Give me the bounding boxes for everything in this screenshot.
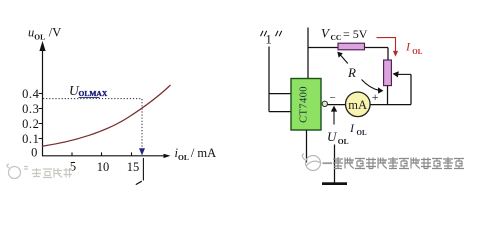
svg-text:V: V bbox=[321, 26, 331, 41]
wire input stub A bbox=[269, 93, 291, 95]
wire input stub B bbox=[269, 111, 291, 113]
svg-text:uOL /V: uOL /V bbox=[28, 25, 61, 41]
svg-text:5: 5 bbox=[70, 159, 76, 173]
wire pot bottom bbox=[387, 86, 389, 105]
chart y-axis arrowhead bbox=[39, 41, 45, 51]
svg-text:= 5V: = 5V bbox=[343, 27, 368, 41]
svg-text:10: 10 bbox=[97, 160, 110, 174]
chart x-axis bbox=[42, 155, 166, 157]
output-low characteristic curve bbox=[42, 85, 171, 146]
svg-text:0.1: 0.1 bbox=[22, 132, 39, 146]
wire meter to loop bbox=[370, 104, 411, 106]
dashed guide vertical at IOLmax bbox=[141, 99, 143, 148]
current annotation arrow IOL (red) bbox=[377, 38, 396, 52]
chart x tick marks bbox=[72, 152, 132, 155]
output inversion bubble bbox=[322, 101, 327, 106]
svg-text:15: 15 bbox=[127, 160, 140, 174]
svg-text:I: I bbox=[349, 121, 355, 135]
potentiometer RP body bbox=[384, 60, 392, 86]
marker line below x-axis bbox=[142, 158, 144, 181]
chart y tick labels bbox=[22, 87, 40, 160]
guide arrowhead down at axis bbox=[139, 148, 145, 155]
wire input vertical bbox=[268, 47, 270, 112]
partial italic I cut at bottom bbox=[136, 181, 142, 184]
milliammeter mA bbox=[346, 92, 371, 117]
svg-text:I: I bbox=[405, 40, 411, 54]
resistor R (series) bbox=[338, 43, 365, 50]
svg-text:OLMAX: OLMAX bbox=[79, 89, 108, 98]
wire Vcc top rail bbox=[308, 47, 388, 49]
chart y-axis bbox=[42, 46, 44, 156]
chart y tick marks bbox=[39, 94, 43, 139]
ground bbox=[322, 182, 347, 185]
dashed guide horizontal at 0.4V bbox=[43, 98, 142, 100]
IC U1 CT7400 bbox=[291, 79, 321, 131]
wire rail to pot bbox=[387, 48, 389, 61]
voltage arrow UOL bbox=[333, 111, 335, 125]
watermark dash bbox=[323, 162, 333, 164]
watermark text left (faint) bbox=[32, 168, 72, 178]
wire wiper drop bbox=[410, 74, 412, 104]
watermark company text bbox=[333, 157, 464, 169]
svg-text:1: 1 bbox=[266, 33, 272, 47]
svg-text:0: 0 bbox=[31, 146, 38, 160]
svg-text:R: R bbox=[347, 65, 356, 80]
svg-text:OL: OL bbox=[412, 48, 422, 56]
svg-text:U: U bbox=[327, 129, 338, 144]
svg-text:0.3: 0.3 bbox=[22, 102, 39, 116]
wire output to meter bbox=[328, 104, 346, 106]
svg-text:mA: mA bbox=[348, 98, 367, 112]
node Vcc stub and IC Vcc pin wire bbox=[307, 28, 309, 79]
wire IC ground pin bbox=[306, 130, 308, 163]
watermark logo left (faint) bbox=[7, 164, 28, 179]
svg-text:OL: OL bbox=[338, 137, 349, 146]
svg-text:OL: OL bbox=[357, 129, 367, 137]
wire UOL node to ground bbox=[334, 145, 336, 183]
pot wiper arrow bbox=[398, 73, 411, 75]
svg-text:0.2: 0.2 bbox=[22, 117, 39, 131]
R pointer arrow to potentiometer bbox=[362, 80, 380, 91]
R pointer arrow to series resistor bbox=[340, 55, 348, 64]
svg-text:+: + bbox=[372, 90, 379, 104]
svg-text:−: − bbox=[330, 92, 336, 104]
svg-text:CC: CC bbox=[331, 33, 342, 42]
watermark logo right bbox=[302, 154, 321, 171]
svg-text:0.4: 0.4 bbox=[22, 87, 40, 101]
svg-text:CT7400: CT7400 bbox=[299, 86, 310, 123]
chart x-axis arrowhead bbox=[164, 154, 171, 158]
svg-text:iOL/ mA: iOL/ mA bbox=[175, 146, 217, 162]
chart x tick labels bbox=[70, 159, 139, 174]
